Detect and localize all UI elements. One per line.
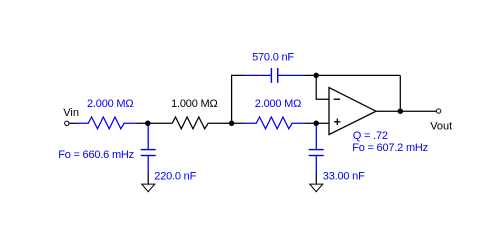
svg-text:Q = .72: Q = .72 (353, 130, 388, 142)
svg-text:2.000 MΩ: 2.000 MΩ (255, 98, 301, 110)
op-amp U1 (329, 88, 376, 135)
svg-text:33.00 nF: 33.00 nF (323, 170, 365, 182)
wire (inverting input feedback) (316, 75, 329, 99)
op-amp minus sign (334, 98, 341, 100)
ground G2 (310, 184, 323, 192)
svg-text:1.000 MΩ: 1.000 MΩ (171, 98, 217, 110)
junction J4 (313, 73, 319, 79)
capacitor C1 220.0 nF (141, 123, 156, 174)
resistor R2 1.000 Mohm (172, 117, 208, 129)
wire (147, 174, 149, 184)
junction J3 (313, 121, 319, 127)
wire (136, 122, 172, 124)
svg-text:Fo = 660.6 mHz: Fo = 660.6 mHz (58, 149, 134, 161)
wire (305, 122, 329, 124)
wire (305, 74, 401, 76)
op-amp plus sign (334, 121, 340, 123)
junction J2 (229, 121, 235, 127)
svg-text:570.0 nF: 570.0 nF (252, 52, 294, 64)
wire (208, 122, 245, 124)
svg-text:Vin: Vin (63, 107, 79, 119)
svg-text:Vout: Vout (430, 120, 452, 132)
wire (376, 110, 436, 112)
svg-text:2.000 MΩ: 2.000 MΩ (87, 98, 133, 110)
resistor R3 2.000 Mohm (245, 117, 305, 129)
junction J5 (398, 108, 404, 114)
node Vout terminal (436, 109, 440, 113)
wire (69, 122, 77, 124)
wire (232, 75, 245, 123)
svg-text:220.0 nF: 220.0 nF (154, 170, 196, 182)
junction J1 (145, 121, 151, 127)
node Vin terminal (65, 121, 69, 125)
wire (399, 75, 401, 111)
resistor R1 2.000 Mohm (76, 117, 136, 129)
wire (315, 174, 317, 184)
svg-text:Fo = 607.2 mHz: Fo = 607.2 mHz (352, 142, 428, 154)
capacitor C3 33.00 nF (309, 123, 324, 174)
ground G1 (142, 184, 155, 192)
capacitor C2 570.0 nF (245, 68, 305, 83)
